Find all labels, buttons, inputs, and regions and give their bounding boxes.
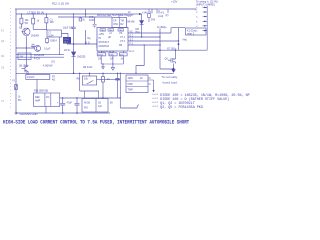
- connector J1 body: [206, 6, 208, 50]
- svg-text:AN19: AN19: [84, 102, 91, 105]
- svg-text:Q5: Q5: [165, 57, 169, 60]
- svg-text:10k: 10k: [98, 58, 103, 60]
- box K: [126, 75, 148, 93]
- box B1: [18, 53, 31, 60]
- svg-text:+14V: +14V: [142, 11, 148, 14]
- resistor R3 small: [79, 17, 81, 18]
- page edge dotted line: [10, 8, 12, 110]
- svg-text:F1: F1: [1, 30, 4, 33]
- svg-text:(coil): (coil): [158, 15, 163, 18]
- svg-text:Rg: Rg: [88, 38, 92, 40]
- svg-text:04-1: 04-1: [64, 42, 69, 44]
- svg-text:1W: 1W: [110, 58, 114, 60]
- svg-text:2k: 2k: [140, 77, 143, 80]
- svg-text:1Ω W: 1Ω W: [64, 50, 71, 52]
- drain stub: [175, 50, 177, 55]
- wire left bus: [15, 9, 17, 112]
- wire E to D: [36, 79, 38, 93]
- svg-text:1N914: 1N914: [50, 41, 57, 43]
- wire third rail: [58, 16, 112, 18]
- bus y73.3: [16, 72, 174, 74]
- svg-text:1k: 1k: [18, 97, 21, 99]
- svg-text:x: x: [196, 12, 198, 14]
- wire y91: [80, 90, 99, 92]
- box I comparator: [47, 30, 62, 37]
- svg-text:AMP: AMP: [35, 100, 41, 103]
- svg-text:1N5235: 1N5235: [77, 56, 86, 59]
- box F: [82, 99, 108, 113]
- wire x85.6: [85, 9, 87, 44]
- svg-text:1μF: 1μF: [98, 106, 103, 108]
- svg-text:+12V: +12V: [171, 0, 178, 4]
- transistor Q5 mosfet: [168, 55, 176, 64]
- svg-text:R10 (SENSE): R10 (SENSE): [34, 91, 48, 93]
- rail end stubs: [152, 9, 196, 14]
- resistor R8: [102, 73, 104, 98]
- svg-text:GND/PLD: GND/PLD: [99, 45, 110, 48]
- svg-text:2N3904: 2N3904: [31, 36, 40, 38]
- svg-text:1k: 1k: [82, 19, 85, 22]
- transistor Q1: [23, 28, 30, 35]
- svg-text:47μF: 47μF: [67, 102, 73, 105]
- connector pin marks: [196, 7, 198, 32]
- svg-text:CMP: CMP: [128, 83, 134, 86]
- svg-text:1MΩ: 1MΩ: [128, 77, 133, 80]
- svg-text:VT 2: VT 2: [120, 40, 126, 43]
- svg-text:FB: FB: [119, 44, 122, 47]
- diode D3: [140, 21, 144, 25]
- capacitor C2: [31, 44, 35, 49]
- svg-text:fused load.: fused load.: [163, 80, 178, 84]
- capacitor C4: [115, 73, 119, 98]
- ground sym: [111, 64, 114, 70]
- svg-text:VT 1: VT 1: [120, 36, 126, 39]
- svg-text:4.0Ω½W: 4.0Ω½W: [43, 64, 53, 68]
- wire y44 into IC: [67, 43, 97, 46]
- svg-text:PAD: PAD: [101, 29, 106, 32]
- svg-text:relay 2: relay 2: [187, 32, 195, 35]
- svg-text:VS: VS: [119, 32, 123, 35]
- svg-text:0.1μF: 0.1μF: [44, 48, 51, 51]
- svg-text:5%: 5%: [25, 22, 29, 25]
- resistor small x84.6: [84, 91, 86, 98]
- svg-text:1k (Bal)+: 1k (Bal)+: [157, 26, 167, 29]
- pot box: [82, 76, 96, 85]
- svg-text:4Ω: 4Ω: [52, 78, 55, 81]
- svg-text:C8: C8: [98, 103, 102, 105]
- node rail junctions: [21, 13, 22, 14]
- svg-text:100: 100: [50, 21, 55, 24]
- zener Z2: [148, 9, 150, 22]
- resistor R1: [20, 14, 22, 28]
- box D: [33, 93, 59, 106]
- wire y79.3: [97, 78, 121, 80]
- wire B to box I: [33, 29, 47, 31]
- svg-text:1k: 1k: [37, 20, 40, 23]
- wire D down: [45, 106, 47, 113]
- svg-text:5V6: 5V6: [151, 20, 156, 22]
- svg-text:*** Q3, Q5 = FDS4435A PKG: *** Q3, Q5 = FDS4435A PKG: [152, 105, 203, 110]
- capacitor C1: [45, 14, 47, 30]
- boxes G under IC: [97, 53, 106, 56]
- wires y54 y57 left: [16, 54, 64, 57]
- svg-text:Q2: Q2: [1, 40, 5, 43]
- svg-text:10k (Bal): 10k (Bal): [19, 65, 29, 68]
- svg-text:R4: R4: [1, 55, 5, 58]
- svg-text:1004: 1004: [48, 34, 54, 37]
- ground sym 2: [102, 64, 105, 69]
- svg-text:BAL: BAL: [136, 31, 141, 34]
- svg-text:LOGIC: LOGIC: [27, 76, 35, 79]
- svg-text:P1 R08 (N) NC/P: P1 R08 (N) NC/P: [98, 51, 115, 53]
- svg-text:R5: R5: [12, 80, 16, 83]
- svg-text:1153: 1153: [89, 19, 95, 22]
- svg-text:(F): (F): [166, 15, 169, 17]
- ground chassis node: [15, 112, 17, 114]
- svg-text:TMR: TMR: [128, 89, 133, 92]
- svg-text:FDD: FDD: [110, 54, 115, 56]
- wire y48: [16, 47, 35, 49]
- svg-text:C7: C7: [1, 100, 5, 103]
- pin wire y33: [128, 32, 171, 34]
- svg-text:G D: G D: [51, 62, 55, 64]
- wire x120 bracket: [120, 73, 139, 108]
- caps at IC left: [93, 17, 97, 28]
- svg-text:C9: C9: [1, 67, 5, 70]
- svg-text:OSC: OSC: [113, 23, 118, 26]
- wire y64: [101, 63, 123, 65]
- svg-text:x: x: [196, 21, 198, 23]
- svg-text:IN: IN: [99, 37, 102, 40]
- capacitor C6: [75, 98, 80, 113]
- svg-text:REF: REF: [35, 96, 40, 99]
- svg-text:+V: +V: [109, 32, 112, 35]
- svg-text:(4a): (4a): [183, 39, 187, 42]
- svg-text:R2: R2: [120, 23, 124, 26]
- svg-text:1%: 1%: [46, 97, 49, 99]
- wire y98: [60, 97, 121, 99]
- diode D4: [46, 39, 49, 43]
- svg-text:1N4148: 1N4148: [126, 20, 135, 23]
- svg-text:+VIN: +VIN: [99, 33, 105, 36]
- fuse F1 on left bus: [15, 85, 18, 90]
- wire into U3: [118, 14, 120, 18]
- svg-text:STAT/FLT: STAT/FLT: [99, 41, 110, 44]
- wire y50: [158, 49, 207, 51]
- svg-text:R12, 0.1Ω 1W: R12, 0.1Ω 1W: [52, 2, 69, 6]
- resistor R2: [32, 14, 34, 30]
- pin wire y37: [128, 36, 160, 38]
- arrow to load: [171, 69, 175, 73]
- capacitor C3 on x73.6: [71, 14, 75, 52]
- stub x168: [167, 9, 169, 13]
- wire x160 down: [160, 29, 174, 70]
- connector pin rows: [203, 7, 208, 30]
- svg-text:LT1910 E5 (A): LT1910 E5 (A): [28, 10, 45, 14]
- svg-text:TM: TM: [120, 20, 123, 23]
- svg-text:HIGH-SIDE LOAD CURRENT CONTROL: HIGH-SIDE LOAD CURRENT CONTROL TO 7.5A F…: [3, 119, 189, 126]
- capacitor C5: [60, 98, 65, 113]
- svg-text:(INPUT) (WIRE): (INPUT) (WIRE): [196, 3, 215, 7]
- wires G drops: [101, 51, 123, 64]
- IC U1 box: [97, 28, 128, 52]
- svg-text:To normally: To normally: [162, 75, 178, 79]
- wire second rail: [16, 13, 127, 15]
- wire x144 down: [136, 45, 144, 73]
- svg-text:5%: 5%: [18, 100, 21, 102]
- wire top rail: [15, 8, 196, 10]
- svg-text:x: x: [196, 7, 198, 9]
- pin wire y45: [128, 44, 161, 46]
- wire I to J: [62, 34, 69, 38]
- svg-text:NC/P: NC/P: [129, 51, 135, 53]
- svg-text:x: x: [196, 17, 198, 19]
- box E: [26, 75, 50, 80]
- wire x178.5 vertical: [178, 28, 180, 51]
- svg-text:P-CH: P-CH: [34, 57, 40, 60]
- transistor Q2: [22, 66, 29, 73]
- svg-text:CHASSIS GND: CHASSIS GND: [20, 112, 38, 116]
- IC U3 box: [112, 18, 127, 28]
- svg-text:x: x: [196, 26, 198, 28]
- svg-text:R9 4mΩ: R9 4mΩ: [83, 66, 92, 69]
- source to node: [173, 64, 175, 70]
- svg-text:x: x: [196, 31, 198, 33]
- wire K out down arrow: [148, 80, 154, 90]
- wire up to y27.7: [171, 28, 185, 33]
- svg-text:10k: 10k: [84, 77, 89, 80]
- svg-text:FIG: FIG: [84, 106, 88, 109]
- IC J filled box: [63, 37, 71, 44]
- ground bus: [16, 112, 110, 114]
- svg-text:Q1: Q1: [19, 27, 23, 30]
- pin wire y41: [128, 40, 179, 42]
- wire DR vertical: [141, 14, 143, 37]
- svg-text:5A: 5A: [110, 101, 113, 104]
- box H: [186, 28, 207, 35]
- wire box I down: [59, 37, 61, 54]
- svg-text:(Ω): (Ω): [24, 70, 28, 73]
- svg-text:CP: CP: [113, 20, 117, 23]
- svg-text:+: +: [57, 102, 59, 105]
- transistor Q3: [35, 45, 41, 51]
- diode D2: [72, 52, 76, 73]
- svg-text:μP: μP: [108, 36, 111, 39]
- wire rail to x141.6 with arrow: [127, 13, 140, 15]
- pin label boxes: [100, 29, 106, 31]
